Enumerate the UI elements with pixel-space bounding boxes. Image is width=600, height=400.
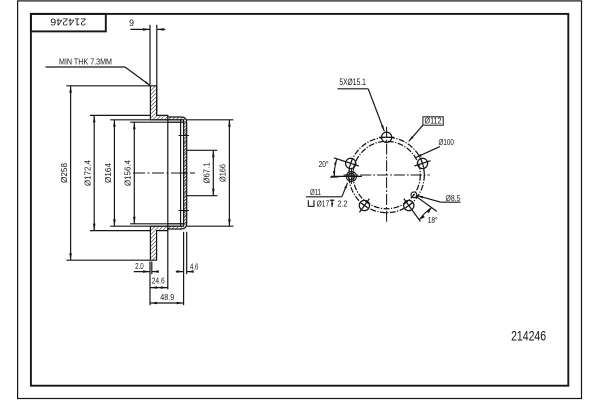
- svg-text:Ø100: Ø100: [438, 137, 454, 147]
- svg-text:Ø112: Ø112: [425, 117, 442, 126]
- svg-text:5XØ15.1: 5XØ15.1: [339, 77, 366, 88]
- svg-text:Ø258: Ø258: [59, 163, 69, 183]
- svg-text:9: 9: [129, 18, 134, 28]
- svg-text:18°: 18°: [428, 215, 438, 225]
- svg-text:Ø172.4: Ø172.4: [83, 160, 93, 186]
- svg-text:Ø67.1: Ø67.1: [202, 162, 212, 183]
- svg-text:20°: 20°: [319, 159, 329, 169]
- svg-text:Ø164: Ø164: [103, 163, 113, 183]
- svg-text:Ø8.5: Ø8.5: [446, 193, 461, 203]
- svg-text:214246: 214246: [50, 15, 86, 27]
- svg-text:2.2: 2.2: [337, 198, 347, 208]
- svg-text:24.6: 24.6: [152, 276, 165, 286]
- svg-text:MIN THK 7.3MM: MIN THK 7.3MM: [59, 57, 112, 67]
- svg-text:Ø166: Ø166: [218, 164, 228, 182]
- svg-text:2.0: 2.0: [135, 261, 144, 271]
- svg-text:Ø156.4: Ø156.4: [123, 160, 133, 186]
- svg-text:Ø11: Ø11: [310, 187, 321, 197]
- svg-text:214246: 214246: [511, 329, 546, 344]
- svg-text:48.9: 48.9: [160, 292, 174, 302]
- svg-text:4.6: 4.6: [190, 262, 199, 272]
- svg-text:Ø17: Ø17: [317, 198, 330, 208]
